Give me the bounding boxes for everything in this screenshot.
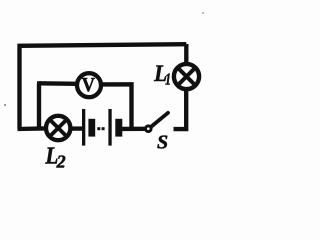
svg-text:1: 1 bbox=[165, 69, 171, 88]
svg-text:2: 2 bbox=[56, 152, 66, 172]
svg-text:V: V bbox=[82, 74, 95, 96]
svg-text:S: S bbox=[157, 132, 168, 154]
